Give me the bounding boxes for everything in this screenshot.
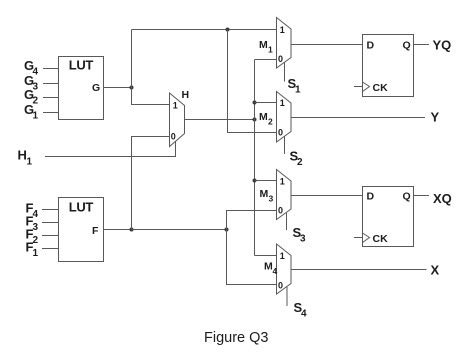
svg-text:2: 2 [297, 157, 303, 168]
wire S4 select [286, 287, 288, 306]
svg-text:0: 0 [171, 132, 176, 142]
svg-text:1: 1 [280, 98, 285, 108]
mux M1 [277, 18, 292, 69]
svg-text:M: M [259, 39, 268, 51]
wire top rail down to M2 input 0 [228, 30, 277, 133]
svg-text:M: M [260, 188, 269, 200]
wire to M3 input 1 [255, 180, 277, 182]
input label F4 [26, 201, 39, 221]
input label G1 [24, 102, 39, 122]
wire G4 [43, 68, 59, 70]
wire F2 [42, 235, 58, 237]
node M3 input 1 junction [253, 179, 257, 183]
svg-text:1: 1 [27, 157, 33, 168]
svg-text:4: 4 [273, 266, 278, 276]
wire S2 select [284, 136, 286, 154]
node G junction [130, 86, 134, 90]
input label G3 [24, 73, 39, 93]
wire G1 [43, 112, 59, 114]
wire M3 output to DFF2 D [291, 195, 363, 197]
label S1 [288, 76, 302, 96]
svg-text:1: 1 [295, 85, 301, 96]
svg-text:1: 1 [268, 45, 273, 55]
svg-text:0: 0 [278, 54, 283, 64]
wire F down to M4 input 0 [227, 230, 277, 285]
wire F4 [42, 209, 58, 211]
input label F3 [26, 214, 39, 234]
svg-text:X: X [431, 263, 440, 278]
wire top rail to M1 input 1 [132, 29, 277, 31]
svg-text:D: D [367, 40, 375, 52]
svg-text:H: H [182, 89, 190, 101]
wire DFF2 clock stub [354, 237, 363, 239]
wire DFF1 clock stub [354, 86, 363, 88]
svg-text:G: G [92, 82, 100, 94]
wire G3 [43, 83, 59, 85]
svg-text:1: 1 [33, 248, 39, 259]
svg-text:1: 1 [33, 111, 39, 122]
label M4 [264, 261, 278, 277]
wire M4 output X [291, 269, 427, 271]
mux M3 [277, 170, 292, 220]
wire DFF2 Q output [414, 195, 430, 197]
wire F1 [42, 248, 58, 250]
svg-text:0: 0 [278, 206, 283, 216]
svg-text:D: D [367, 191, 375, 203]
wire S1 select [284, 62, 286, 82]
label S4 [294, 300, 308, 320]
wire G down to H input 1 [132, 88, 170, 105]
label M3 [260, 188, 274, 204]
LUT G block [59, 57, 104, 120]
svg-text:3: 3 [269, 194, 274, 204]
label M1 [259, 39, 273, 55]
svg-text:1: 1 [280, 251, 285, 261]
wire G output [104, 87, 132, 89]
node F junction [130, 228, 134, 232]
input label G2 [24, 87, 39, 107]
node H output junction [253, 118, 257, 122]
svg-text:LUT: LUT [69, 200, 94, 215]
wire G2 [43, 97, 59, 99]
node top rail junction [226, 28, 230, 32]
svg-text:2: 2 [268, 117, 273, 127]
D flip-flop DFF1 [363, 35, 414, 97]
wire to M4 input 1 [255, 255, 277, 257]
D flip-flop DFF2 [363, 187, 414, 247]
mux H [170, 89, 190, 147]
svg-text:3: 3 [300, 234, 306, 245]
wire F3 [42, 222, 58, 224]
svg-text:CK: CK [373, 82, 389, 94]
svg-text:LUT: LUT [69, 58, 94, 73]
input label G4 [24, 58, 39, 78]
wire S3 select [286, 213, 288, 230]
input label H1 [18, 148, 33, 168]
svg-text:1: 1 [280, 177, 285, 187]
wire H output [185, 119, 255, 121]
svg-text:4: 4 [301, 309, 307, 320]
svg-text:Figure Q3: Figure Q3 [204, 330, 268, 346]
svg-text:Q: Q [403, 40, 411, 52]
mux M4 [277, 244, 292, 294]
node M2 input 1 junction [253, 101, 257, 105]
svg-text:Y: Y [431, 110, 440, 125]
wire F up to H input 0 [132, 137, 170, 230]
wire DFF1 Q output [414, 44, 430, 46]
wire F to right [132, 229, 227, 231]
svg-text:0: 0 [278, 280, 283, 290]
mux M2 [277, 92, 292, 143]
label S3 [293, 225, 307, 245]
wire G up to top rail [131, 30, 133, 88]
svg-text:F: F [92, 225, 99, 237]
svg-text:CK: CK [373, 233, 389, 245]
wire F output [104, 229, 132, 231]
label S2 [290, 149, 304, 169]
wire to M1 input 0 [255, 59, 277, 61]
wire H1 to mux H select [45, 141, 176, 157]
wire to M2 input 1 [255, 102, 277, 104]
svg-text:0: 0 [278, 127, 283, 137]
svg-text:M: M [259, 111, 268, 123]
LUT F block [59, 198, 104, 262]
svg-text:YQ: YQ [433, 38, 452, 53]
label M2 [259, 111, 273, 127]
wire F up to M3 input 0 [227, 211, 277, 230]
wire M1 output to DFF1 D [291, 44, 363, 46]
svg-text:Q: Q [403, 191, 411, 203]
svg-text:H: H [18, 148, 27, 163]
input label F1 [26, 240, 39, 260]
wire H bus vertical [254, 60, 256, 256]
input label F2 [26, 227, 39, 247]
svg-text:XQ: XQ [433, 191, 452, 206]
svg-text:1: 1 [280, 25, 285, 35]
node F right junction [225, 228, 229, 232]
wire M2 output Y [291, 117, 425, 119]
svg-text:1: 1 [173, 101, 178, 111]
